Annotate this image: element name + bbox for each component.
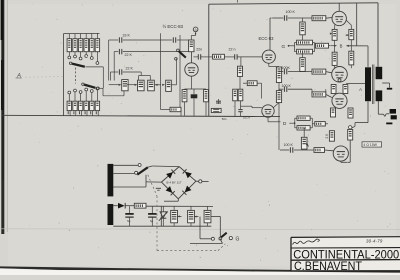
wire mains leads <box>113 165 146 187</box>
resistor load R4 <box>84 101 88 110</box>
selector contact 3 <box>79 57 82 60</box>
resistor 21K screen <box>316 43 329 48</box>
wire tone bracket <box>139 72 151 80</box>
capacitor 100K top <box>284 15 286 20</box>
wire splitter cathode chain <box>269 63 279 67</box>
switch output contact a <box>211 237 214 240</box>
wire divider loop <box>295 43 315 52</box>
terminal pot input <box>97 87 100 90</box>
wire input R5 top lead <box>91 34 93 39</box>
switch output contact b <box>229 237 232 240</box>
wire bottom resistor stubs <box>161 107 182 116</box>
resistor 1M grid leak <box>238 66 243 76</box>
capacitor 22K upper <box>119 49 121 54</box>
resistor input R6 <box>95 39 99 52</box>
wire cap row 3 <box>111 72 142 81</box>
wire feedback stub <box>243 83 262 98</box>
wire selector link dashed <box>75 68 77 84</box>
wire cathode to bus <box>185 102 207 116</box>
terminal mains a <box>138 164 141 167</box>
wire OT1 anode <box>338 4 340 12</box>
pentode OT2 EL84 <box>332 67 348 83</box>
capacitor 22K lower <box>119 69 121 74</box>
selector contact 8 <box>74 89 77 92</box>
resistor divider upper <box>297 40 313 45</box>
potentiometer presence <box>301 137 307 149</box>
wire input R6 bottom lead <box>96 52 98 62</box>
switch output pivot <box>219 237 221 239</box>
terminal screen <box>349 126 352 129</box>
pentode OT4 EL84 <box>333 146 348 161</box>
wire load R4 bottom lead <box>86 111 88 116</box>
wire cathodyne drop <box>278 103 280 150</box>
wire input R1 top lead <box>68 34 70 39</box>
label output box 4ohm 15W <box>362 142 382 147</box>
wire trim P6 leads <box>191 206 198 226</box>
svg-text:100 K: 100 K <box>286 10 296 14</box>
capacitor 100K mid <box>284 69 286 74</box>
resistor 560K plate load <box>189 40 194 52</box>
resistor mid col a <box>331 85 336 94</box>
wire V1 anode <box>191 52 193 63</box>
resistor 100K lower <box>300 58 305 72</box>
svg-text:Nμ: Nμ <box>127 219 131 223</box>
jack ground dash <box>386 122 392 124</box>
potentiometer treble P4 <box>166 80 172 91</box>
second drive row wire <box>279 72 332 73</box>
svg-text:4 Ω 15W: 4 Ω 15W <box>363 143 377 147</box>
wire load R5 bottom lead <box>92 111 94 116</box>
wire load R2 top lead <box>74 92 76 101</box>
wire input R2 top lead <box>74 34 76 39</box>
resistor load R5 <box>90 101 94 110</box>
terminal B+ circled <box>193 27 198 32</box>
wire load R5 top lead <box>91 92 93 101</box>
wire load R2 bottom lead <box>75 111 77 116</box>
wire load R6 top lead <box>96 90 98 101</box>
resistor dropper R30 <box>204 210 211 222</box>
resistor decoupling R10 <box>213 54 225 59</box>
svg-text:22n: 22n <box>196 47 202 51</box>
wire switch to bridge <box>146 166 179 182</box>
svg-text:G: G <box>282 44 286 49</box>
resistor load R1 <box>67 101 71 110</box>
secondary tap contact <box>387 88 392 90</box>
resistor bias b <box>349 51 354 65</box>
wire to cap 22n second <box>224 56 234 58</box>
label load R4 <box>84 111 86 114</box>
selector wiper 2 <box>82 83 96 88</box>
resistor bottom 100K <box>170 107 181 111</box>
resistor col b upper <box>348 108 353 118</box>
wire third row link <box>311 89 313 94</box>
wire trim P5 leads <box>174 206 181 226</box>
resistor feedback upper <box>297 116 310 120</box>
pentode OT3 EL84 <box>332 93 347 108</box>
capacitor tail bypass <box>238 110 242 112</box>
wire secondary tap <box>382 83 389 88</box>
selector contact 5 <box>90 57 93 60</box>
bridge rectifier B4BY117 <box>161 167 196 199</box>
svg-text:33 K: 33 K <box>123 33 131 37</box>
wire load R3 bottom lead <box>80 111 82 116</box>
resistor grid OT2 <box>312 69 326 74</box>
svg-text:22 K: 22 K <box>126 66 134 70</box>
terminal B with arrow <box>329 44 343 49</box>
wire load R1 top lead <box>68 94 70 101</box>
wire load R6 bottom lead <box>97 111 99 116</box>
label load R5 <box>90 111 92 114</box>
wire load R1 bottom lead <box>69 111 71 116</box>
dashed chassis run <box>148 175 226 251</box>
wire bias to OT2 <box>335 65 352 68</box>
resistor input R1 <box>67 39 71 52</box>
potentiometer mid P3 <box>148 80 155 91</box>
resistor load R2 <box>73 101 77 110</box>
wire V1 cathode net <box>185 76 207 89</box>
svg-text:½ ECC-83: ½ ECC-83 <box>163 24 184 29</box>
selector contact 7 <box>68 91 71 94</box>
terminal D with arrow <box>283 121 295 126</box>
wire screen feed to transformer <box>346 45 368 67</box>
selector contact 10 <box>85 88 88 91</box>
wire input R4 top lead <box>85 34 87 39</box>
resistor input R5 <box>90 39 94 52</box>
resistor bias series <box>134 203 146 208</box>
transformer T2 primary bar <box>365 67 371 101</box>
wire primary bottom chain <box>352 101 368 128</box>
top row drive wire <box>270 17 312 19</box>
resistor input R3 <box>78 39 82 52</box>
selector contact 2 <box>74 55 77 58</box>
wire bridge output stub <box>202 180 209 182</box>
fourth drive row wire <box>280 149 333 152</box>
jack contact lower <box>391 115 397 119</box>
wire 1K8 stubs <box>312 123 328 125</box>
wire dropper leads <box>208 206 221 237</box>
wire bridge output <box>196 180 199 182</box>
svg-text:22 n: 22 n <box>229 47 236 51</box>
wire input R3 top lead <box>80 34 82 39</box>
resistor input R4 <box>84 39 88 52</box>
resistor grid OT1 <box>312 16 326 21</box>
wire cap row 1 <box>109 40 173 81</box>
resistor OT1 cathode <box>332 29 337 40</box>
wire splitter grid <box>237 56 262 58</box>
zener regulator <box>159 206 168 226</box>
wire presence pot arrow <box>304 128 308 147</box>
resistor cathode 56K <box>204 90 209 102</box>
selector contact 9 <box>79 91 82 94</box>
resistor splitter cathode <box>276 67 281 83</box>
ground bus wire <box>2 115 280 116</box>
transformer T1 primary bar <box>108 164 114 197</box>
wire cathode chain lower <box>278 83 280 91</box>
terminal circled mid <box>338 79 341 82</box>
svg-text:A: A <box>16 74 21 80</box>
resistor screen lower <box>348 130 353 141</box>
resistor input R2 <box>73 39 77 52</box>
resistor 1K8 feedback <box>315 122 326 126</box>
wire input R6 top lead <box>96 34 98 39</box>
svg-text:ECC-83: ECC-83 <box>259 36 275 41</box>
wire input R5 bottom lead <box>91 52 93 57</box>
terminal bridge plus <box>199 180 202 183</box>
capacitor coupling V1 grid <box>173 37 175 42</box>
wire bridge bottom return <box>164 199 178 201</box>
transformer T2 secondary upper bar <box>376 67 383 79</box>
svg-text:100 K: 100 K <box>282 84 292 88</box>
resistor mid col b <box>343 85 348 94</box>
resistor grid OT4 <box>314 148 325 153</box>
third drive row wire <box>279 89 332 97</box>
resistor 1M5 tail b <box>238 89 243 101</box>
coupling capacitor 22n <box>194 54 215 59</box>
trim arrow OT1 screen <box>346 34 349 36</box>
triode V1 half ECC-83 <box>185 63 198 76</box>
wire anode load to tube <box>274 103 280 108</box>
svg-text:30-4-79: 30-4-79 <box>366 238 383 243</box>
capacitor electrolytic C2 <box>148 206 156 226</box>
capacitor 50n bottom <box>211 99 221 113</box>
svg-text:B: B <box>340 44 343 49</box>
capacitor 100K fourth <box>290 147 292 152</box>
terminal switch lower <box>219 237 222 240</box>
B+ rail wire <box>208 4 210 116</box>
transformer T2 secondary lower bar <box>376 90 383 101</box>
diode rectifier bias <box>113 203 134 209</box>
svg-text:C.BENAVENT: C.BENAVENT <box>294 260 362 273</box>
resistor 2K lower <box>329 131 334 142</box>
wire splitter rail <box>240 57 242 66</box>
resistor 100K upper <box>300 22 305 35</box>
capacitor 100K third <box>284 87 286 92</box>
resistor load R3 <box>78 101 82 110</box>
wire lower link <box>190 238 223 243</box>
wire selector output 1 <box>86 67 104 88</box>
triode splitter S2 <box>262 105 274 117</box>
title block box <box>291 237 400 271</box>
label load R6 <box>95 111 97 114</box>
capacitor 33K <box>119 37 121 42</box>
pentode OT1 EL84 <box>332 11 346 25</box>
wire OT4 cathode return <box>341 140 350 162</box>
triode splitter S1 <box>262 50 275 63</box>
label load R2 <box>73 111 75 114</box>
resistor cathode 1K5 <box>182 90 187 102</box>
capacitor electrolytic 25u <box>191 89 198 116</box>
selector contact 12 <box>96 87 99 90</box>
resistor load R6 <box>95 101 99 110</box>
wire left riser <box>160 33 162 107</box>
resistor 10K tail a <box>233 89 238 101</box>
label load R1 <box>67 111 69 114</box>
selector wiper 1 <box>69 62 84 67</box>
wire S1 anode to top row <box>269 18 271 50</box>
svg-text:A: A <box>358 87 362 92</box>
svg-text:50n: 50n <box>222 117 227 121</box>
capacitor electrolytic C1 <box>125 206 133 226</box>
resistor feedback lower <box>297 126 310 130</box>
potentiometer trim P5 <box>171 210 178 222</box>
filter top bus wire <box>146 205 213 207</box>
wire pot row links <box>99 59 176 96</box>
wire 100K lower leads <box>302 52 304 72</box>
wire input R4 bottom lead <box>85 52 87 55</box>
transformer T1 secondary bar <box>108 204 114 225</box>
svg-text:B 4 BY 117: B 4 BY 117 <box>167 181 182 185</box>
svg-text:100 K: 100 K <box>284 143 294 147</box>
resistor grid OT3 <box>312 92 326 97</box>
potentiometer gain wiper <box>175 49 186 60</box>
selector contact 1 <box>68 56 71 59</box>
input bus wire <box>64 32 100 34</box>
title signature scribble <box>293 239 320 244</box>
wire input R3 bottom lead <box>80 52 82 57</box>
resistor 47K feedback <box>247 81 257 86</box>
switch output lever <box>220 233 227 239</box>
wire transformer primary left lead <box>346 83 365 85</box>
wire load R3 top lead <box>80 93 82 101</box>
wire tails to bus <box>235 101 241 116</box>
wire load R4 top lead <box>85 91 87 101</box>
resistor bias a <box>332 52 337 65</box>
top supply bus wire <box>209 3 378 4</box>
svg-text:22 K: 22 K <box>125 53 133 57</box>
wire to OT1 grid <box>326 17 333 20</box>
wire S2 cathode lead <box>268 117 281 122</box>
potentiometer volume P1 <box>122 80 128 91</box>
terminal mains b <box>135 171 138 174</box>
wire cap to plate resistor top <box>177 39 192 41</box>
selector frame wire <box>63 34 65 116</box>
svg-text:101 h: 101 h <box>243 116 250 120</box>
right supply drop wire <box>356 3 358 46</box>
potentiometer trim P6 <box>188 210 195 222</box>
filter bottom bus wire <box>113 206 211 226</box>
wire cap row 2 <box>114 52 188 81</box>
selector contact 6 <box>96 62 99 65</box>
selector contact 11 <box>90 90 93 93</box>
resistor divider lower <box>297 49 313 54</box>
svg-text:6μ: 6μ <box>150 219 153 223</box>
wire feedback loop <box>295 118 313 128</box>
wire 100K upper leads <box>302 18 304 43</box>
wire input R2 bottom lead <box>74 52 76 55</box>
switch mains lever <box>137 167 148 174</box>
label load R3 <box>79 111 81 114</box>
trim arrow OT1 cathode <box>330 33 332 35</box>
wire output switch feed <box>200 217 211 239</box>
selector contact 4 <box>85 55 88 58</box>
wire secondary to jack <box>378 101 389 116</box>
wire OT1 bias nets <box>335 20 352 52</box>
wire input R1 bottom lead <box>68 52 70 56</box>
terminal G with arrow <box>282 44 295 49</box>
feedback riser wire <box>179 35 181 108</box>
svg-text:100K: 100K <box>282 66 291 70</box>
wire tail to S2 grid <box>241 106 262 108</box>
resistor 2K upper col a <box>331 108 336 117</box>
wire below 1M <box>239 76 241 89</box>
potentiometer bass P2 <box>138 80 145 91</box>
resistor OT1 screen <box>349 29 354 39</box>
node A input annotation <box>16 74 64 80</box>
jack contact upper <box>390 109 396 114</box>
wire selector output 2 <box>95 87 98 89</box>
transformer T2 core <box>372 65 374 105</box>
capacitor 22n grid <box>235 54 237 59</box>
label 1/2 ECC-83 <box>163 24 184 29</box>
chassis tick <box>156 188 161 190</box>
wire B+ feed to plate resistor <box>191 32 196 40</box>
resistor splitter anode load <box>276 91 281 103</box>
B+ to output transformer wire <box>377 3 379 67</box>
